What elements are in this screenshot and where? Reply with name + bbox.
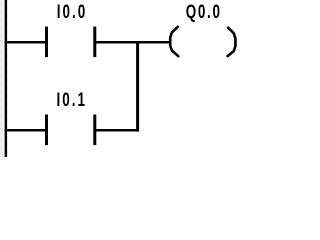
svg-text:I0.0: I0.0 xyxy=(57,0,87,22)
svg-text:I0.1: I0.1 xyxy=(57,88,87,110)
svg-text:Q0.0: Q0.0 xyxy=(186,0,222,22)
